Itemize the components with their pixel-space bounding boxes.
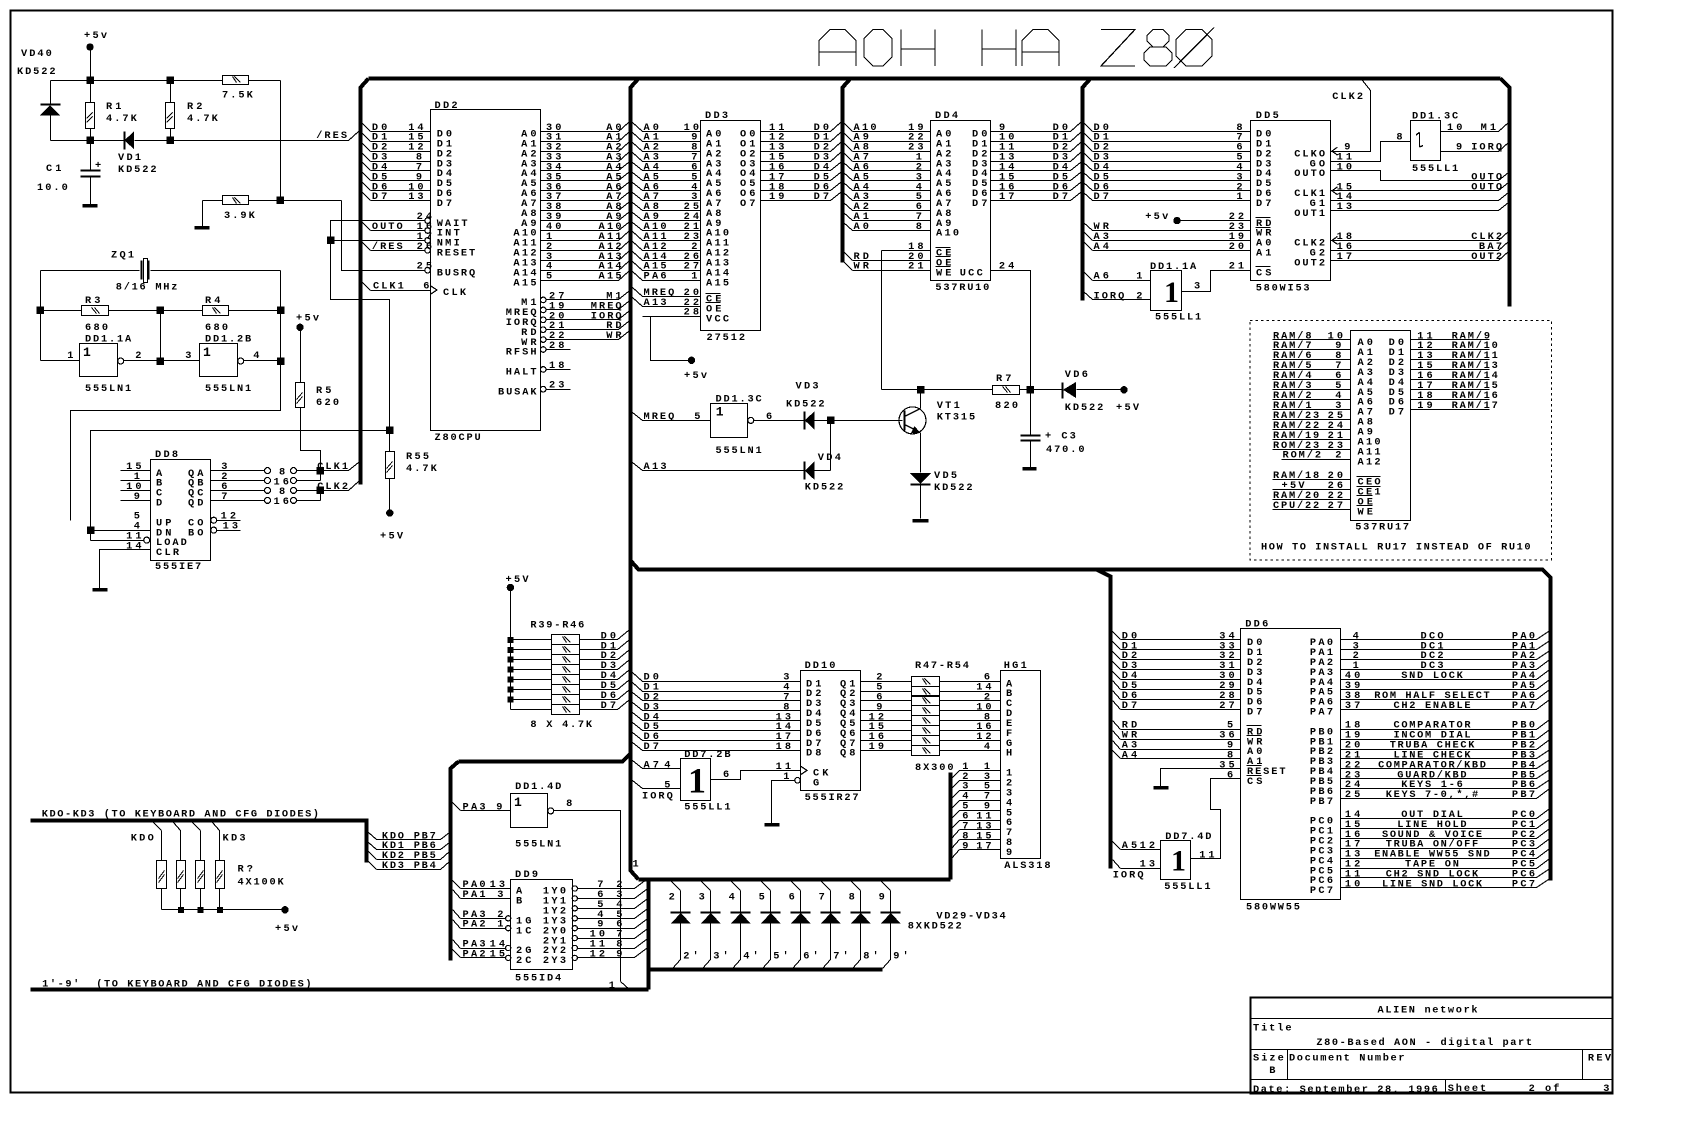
resistor R53: [912, 736, 940, 746]
wire DD7.2B out to CK: [711, 771, 801, 780]
svg-text:1: 1: [497, 919, 503, 931]
svg-text:KD3: KD3: [223, 832, 246, 844]
svg-text:470.0: 470.0: [1046, 444, 1085, 456]
jumper block 8/16: [265, 468, 271, 474]
ground: [1154, 786, 1169, 790]
svg-text:VD4: VD4: [818, 452, 841, 464]
DD2 pin D5 9: [363, 173, 371, 181]
wire data bus top horizontal: [369, 77, 1501, 81]
RU17 pin D3 15 RAM/13: [1411, 369, 1490, 371]
svg-text:KT315: KT315: [937, 412, 976, 424]
svg-text:PA2: PA2: [463, 919, 486, 931]
svg-text:KD522: KD522: [1065, 402, 1104, 414]
DD4 pin A9 22: [844, 133, 853, 142]
wire digit 1 net: [554, 811, 621, 982]
svg-text:3: 3: [1603, 1083, 1609, 1095]
DD4 pin A0 8: [844, 223, 853, 231]
transistor VT1: [899, 407, 926, 434]
svg-text:1: 1: [1164, 276, 1179, 309]
DD3 pin A4 6: [633, 163, 643, 171]
wire junction: [317, 467, 324, 474]
wire junction: [37, 307, 44, 314]
wire HG1 digit stub bus: [949, 773, 953, 880]
HG1 pin digit 8 / 15: [952, 840, 960, 849]
HG1 pin digit 1 / 1: [952, 771, 960, 779]
svg-text:7: 7: [819, 891, 825, 903]
svg-text:4.7K: 4.7K: [187, 113, 219, 125]
svg-text:6: 6: [766, 411, 772, 423]
svg-text:9: 9: [962, 840, 968, 852]
svg-text:27512: 27512: [707, 332, 746, 344]
crystal ZQ1: [41, 270, 140, 272]
svg-text:VD5: VD5: [934, 470, 957, 482]
svg-text:8: 8: [916, 221, 922, 233]
wire osc out loop: [280, 271, 282, 361]
capacitor C1: [90, 141, 92, 170]
DD4 pin A1 7: [844, 213, 853, 221]
wire 1-9 bottom bus: [31, 988, 649, 992]
svg-text:8X300: 8X300: [915, 762, 954, 774]
DD4 pin A4 4: [844, 183, 853, 191]
svg-text:KD3 PB4: KD3 PB4: [382, 860, 436, 872]
DD3 pin A1 9: [633, 133, 643, 142]
power node dot: [1174, 217, 1180, 223]
DD5 pin D7 1: [1084, 193, 1093, 201]
RU17 pin D0 11 RAM/9: [1411, 339, 1490, 341]
svg-text:+5v: +5v: [296, 313, 319, 325]
DD10 pin D1 3 / Q1 2: [633, 673, 643, 682]
wire mid horizontal bus: [631, 561, 1551, 881]
wire junction: [277, 307, 284, 314]
power node dot: [507, 584, 513, 590]
DD4 pin A10 19: [844, 123, 853, 132]
DD3 pin A11 23: [633, 232, 643, 241]
DD6 pin D3 31: [1113, 662, 1121, 670]
diode keyboard digit 8: [852, 882, 861, 891]
DD3 pin A5 5: [633, 173, 643, 181]
wire junction: [87, 137, 94, 144]
DD6 pin D0 34: [1113, 632, 1121, 640]
DD3 pin A10 21: [633, 223, 643, 231]
RU17 pin ROM/2 2: [1282, 459, 1351, 461]
DD4 pin A5 3: [844, 173, 853, 181]
resistor R51: [912, 716, 940, 726]
DD4 pin A8 23: [844, 143, 853, 152]
diode keyboard digit 2: [672, 882, 681, 891]
svg-text:680: 680: [85, 322, 108, 334]
wire junction: [87, 77, 94, 84]
DD3 pin A6 4: [633, 183, 643, 191]
svg-text:PA7: PA7: [1310, 707, 1333, 719]
svg-text:+5V: +5V: [506, 574, 530, 586]
svg-text:ROM/2: ROM/2: [1283, 450, 1322, 462]
DD2 pin D4 7: [363, 163, 371, 171]
svg-text:BUSRQ: BUSRQ: [437, 267, 476, 279]
DD5 pin D3 5: [1084, 153, 1093, 162]
wire junction: [918, 387, 925, 394]
svg-text:KD522: KD522: [934, 482, 973, 494]
jumper wires CLK2: [297, 490, 321, 492]
resistor R3x 7.5K: [223, 76, 249, 85]
wire junction: [178, 907, 183, 912]
svg-text:Document Number: Document Number: [1289, 1053, 1405, 1065]
svg-text:1: 1: [716, 405, 724, 420]
svg-text:+5V: +5V: [380, 531, 404, 543]
RU17 pin RAM/8 10: [1273, 339, 1351, 341]
svg-text:9: 9: [134, 491, 140, 503]
svg-text:+5v: +5v: [275, 923, 298, 935]
wire R3R4 mid: [160, 311, 162, 361]
HG1 pin digit 9 / 17: [952, 850, 960, 859]
wire DD9 output bus: [647, 880, 651, 990]
ground: [765, 823, 780, 827]
svg-text:1: 1: [203, 345, 211, 360]
wire junction: [828, 417, 835, 424]
DD3 VCC +5v: [651, 317, 701, 361]
DD5 WR A0 A1 pins: [1084, 223, 1093, 231]
DD10 pin D7 17 / Q7 16: [633, 733, 643, 741]
svg-text:4: 4: [984, 741, 990, 753]
svg-text:VCC: VCC: [706, 313, 729, 325]
RU17 pin RAM/2 4: [1273, 399, 1351, 401]
DD3 pin A7 3: [633, 193, 643, 201]
svg-text:KD522: KD522: [786, 399, 825, 411]
diode keyboard digit 5: [762, 882, 771, 891]
svg-text:Z80-Based AON - digital part: Z80-Based AON - digital part: [1316, 1037, 1532, 1049]
svg-text:8/16 MHz: 8/16 MHz: [116, 282, 178, 294]
DD6 pin D1 33: [1113, 642, 1121, 650]
DD4 CE wire down: [881, 251, 883, 390]
svg-text:KDO-KD3 (TO KEYBOARD AND CFG D: KDO-KD3 (TO KEYBOARD AND CFG DIODES): [42, 809, 319, 821]
svg-text:1: 1: [609, 980, 615, 992]
svg-text:+5V: +5V: [1116, 402, 1140, 414]
diode keyboard digit 7: [822, 882, 831, 891]
wire junction: [327, 237, 334, 244]
RU17 pin D5 17 RAM/15: [1411, 389, 1490, 391]
DD5 pin D4 4: [1084, 163, 1093, 171]
resistor R55: [389, 431, 391, 452]
power node dot: [387, 510, 393, 516]
svg-text:VT1: VT1: [937, 400, 960, 412]
svg-text:1: 1: [1136, 271, 1142, 283]
svg-text:1: 1: [633, 859, 639, 871]
svg-text:A15: A15: [706, 277, 729, 289]
wire junction: [508, 667, 513, 672]
wire keyboard +5v rail: [162, 909, 282, 911]
DD4 UCC wire: [991, 271, 1031, 390]
svg-text:CH2 ENABLE: CH2 ENABLE: [1394, 700, 1471, 712]
power node dot: [1121, 387, 1127, 393]
ground: [913, 519, 929, 523]
diode keyboard digit 6: [792, 882, 801, 891]
DD3 pin A15 27: [633, 262, 643, 271]
svg-text:CLR: CLR: [156, 547, 180, 559]
resistor R48: [912, 687, 940, 697]
DD5 pin D6 2: [1084, 183, 1093, 191]
DD10 pin D6 14 / Q6 15: [633, 723, 643, 731]
wire junction: [157, 358, 164, 365]
wire CLK2 top to CLK0: [1363, 81, 1371, 91]
svg-text:6: 6: [1227, 769, 1233, 781]
svg-text:8: 8: [1396, 132, 1402, 144]
wire central bus vertical: [631, 79, 639, 880]
svg-text:RESET: RESET: [437, 248, 476, 260]
svg-text:+: +: [95, 160, 101, 172]
svg-text:PC7: PC7: [1512, 878, 1535, 890]
svg-text:8 X 4.7K: 8 X 4.7K: [530, 719, 592, 731]
wire junction: [87, 527, 94, 534]
svg-text:1'-9' (TO KEYBOARD AND CFG DI: 1'-9' (TO KEYBOARD AND CFG DIODES): [42, 978, 312, 990]
resistor 3.9K: [203, 200, 223, 202]
DD6 control pins: [1113, 721, 1121, 730]
DD1.3C outputs M1 IORQ: [1441, 131, 1499, 133]
svg-text:REV: REV: [1588, 1053, 1612, 1065]
resistor R54: [912, 746, 940, 756]
jumper wires CLK1: [297, 470, 321, 472]
svg-text:5: 5: [759, 891, 765, 903]
DD10 pin D5 13 / Q5 12: [633, 713, 643, 721]
svg-text:620: 620: [316, 397, 339, 409]
resistor R46: [511, 709, 552, 711]
RU17 pin RAM/7 9: [1273, 349, 1351, 351]
DD3 pin A3 7: [633, 153, 643, 162]
svg-text:3: 3: [497, 889, 503, 901]
svg-text:UCC: UCC: [960, 267, 983, 279]
svg-text:PA1: PA1: [463, 889, 486, 901]
svg-text:PA3: PA3: [463, 801, 486, 813]
wire G0 to DD1.3C: [1331, 142, 1411, 162]
svg-text:KD522: KD522: [805, 482, 844, 494]
RU17 pin RAM/1 3: [1273, 409, 1351, 411]
svg-text:4: 4: [664, 760, 670, 772]
wire right top bus vertical: [1501, 79, 1510, 307]
DD4 pin A3 5: [844, 193, 853, 201]
net label /RES: [349, 132, 359, 141]
wire top rail: [51, 80, 223, 82]
svg-text:2: 2: [1136, 290, 1142, 302]
svg-text:3.9K: 3.9K: [224, 210, 256, 222]
wire osc resist rail: [41, 310, 82, 312]
wire keyboard column bus: [459, 754, 631, 762]
svg-text:6: 6: [423, 281, 429, 293]
wire osc left: [40, 271, 42, 361]
resistor R? keyboard 4: [213, 823, 220, 831]
RU17 pin RAM/5 7: [1273, 369, 1351, 371]
wire junction: [317, 487, 324, 494]
DD3 pin A9 24: [633, 213, 643, 221]
svg-text:680: 680: [205, 322, 228, 334]
wire junction: [508, 647, 513, 652]
DD9 pin PA3 14: [453, 940, 461, 949]
wire bus2 vertical: [843, 79, 851, 263]
diode VD5: [910, 473, 931, 484]
DD2 pin D7 13: [363, 193, 371, 201]
svg-text:6: 6: [789, 891, 795, 903]
svg-text:8: 8: [849, 891, 855, 903]
diode VD3: [754, 420, 805, 422]
svg-text:3: 3: [699, 891, 705, 903]
wire KD2 PB5: [369, 852, 377, 860]
wire diode lower bus: [649, 968, 883, 972]
DD5 CLK2 G2 OUT2 wires: [1331, 240, 1499, 242]
svg-text:PA7: PA7: [1512, 700, 1535, 712]
svg-text:HOW TO INSTALL RU17 INSTEAD OF: HOW TO INSTALL RU17 INSTEAD OF RU10: [1261, 542, 1531, 554]
wire KD1 PB6: [369, 843, 377, 850]
DD3 pin A0 10: [633, 123, 643, 132]
svg-text:VD6: VD6: [1065, 369, 1088, 381]
svg-text:8: 8: [566, 798, 572, 810]
wire lower rail /RES: [51, 140, 124, 142]
DD10 pin D8 18 / Q8 19: [633, 743, 643, 751]
title block: [1251, 998, 1613, 1094]
svg-text:580WW55: 580WW55: [1246, 902, 1300, 914]
svg-text:537RU10: 537RU10: [935, 282, 989, 294]
diode keyboard digit 3: [702, 882, 711, 891]
svg-text:555IR27: 555IR27: [805, 792, 859, 804]
ground: [83, 204, 98, 208]
DD5 pin D5 3: [1084, 173, 1093, 181]
ram 537RU17: [1351, 331, 1411, 521]
svg-text:G: G: [813, 778, 819, 790]
diode VD1: [124, 132, 126, 150]
svg-text:R47-R54: R47-R54: [915, 660, 969, 672]
svg-text:SND LOCK: SND LOCK: [1401, 670, 1463, 682]
resistor R7: [993, 386, 1020, 395]
svg-text:1: 1: [1171, 845, 1186, 878]
ground 3.9K: [202, 201, 204, 227]
HG1 pin digit 2 / 3: [952, 781, 960, 789]
svg-text:4.7K: 4.7K: [106, 113, 138, 125]
svg-text:ZQ1: ZQ1: [111, 250, 134, 262]
DD9 pin PA2 15: [453, 950, 461, 958]
wire bus3 vertical: [1083, 79, 1091, 301]
resistor R49: [912, 696, 940, 706]
svg-text:5: 5: [546, 271, 552, 283]
wire junction: [157, 307, 164, 314]
DD6 pin D6 28: [1113, 691, 1121, 700]
svg-text:+5v: +5v: [684, 370, 707, 382]
svg-text:PC7: PC7: [1310, 885, 1333, 897]
svg-text:8XKD522: 8XKD522: [908, 921, 962, 933]
wire collector rail: [882, 389, 993, 391]
DD4 pin A2 6: [844, 203, 853, 211]
DD6 pin D7 27: [1113, 701, 1121, 710]
svg-text:+5v: +5v: [1145, 211, 1168, 223]
DD2 pin D3 8: [363, 154, 371, 162]
svg-text:7.5K: 7.5K: [222, 90, 254, 102]
diode VD40: [50, 81, 52, 105]
wire KD3 PB4: [369, 862, 377, 870]
svg-text:KD522: KD522: [118, 164, 157, 176]
svg-text:Date: September 28, 1996: Date: September 28, 1996: [1253, 1084, 1438, 1096]
resistor R47: [912, 677, 940, 687]
svg-text:+5v: +5v: [84, 30, 107, 42]
svg-text:6: 6: [723, 769, 729, 781]
diode keyboard digit 4: [732, 882, 741, 891]
DD2 pin D1 15: [363, 134, 371, 142]
svg-text:DD2: DD2: [435, 100, 458, 112]
ground: [1023, 467, 1037, 471]
RU17 pin RAM/6 8: [1273, 359, 1351, 361]
ground: [195, 226, 210, 230]
svg-text:9: 9: [879, 891, 885, 903]
svg-text:KD522: KD522: [17, 66, 56, 78]
wire junction: [508, 697, 513, 702]
svg-text:PA2: PA2: [463, 948, 486, 960]
DD3 pin A12 2: [633, 242, 643, 251]
svg-text:D: D: [156, 498, 162, 510]
svg-text:VD1: VD1: [118, 152, 141, 164]
svg-text:3: 3: [1194, 281, 1200, 293]
DD5 pin D2 6: [1084, 143, 1093, 152]
DD4 pin A7 1: [844, 153, 853, 162]
DD5 pin D1 7: [1084, 133, 1093, 142]
wire junction: [508, 687, 513, 692]
svg-text:820: 820: [995, 400, 1018, 412]
svg-text:9: 9: [1456, 142, 1462, 154]
DD3 pin A14 26: [633, 252, 643, 261]
wire junction: [167, 137, 174, 144]
diode VD6: [1062, 383, 1064, 399]
RU17 control pins: [1273, 479, 1351, 481]
HG1 pin digit 7 / 13: [952, 830, 960, 839]
wire KDO PB7: [369, 833, 377, 840]
RU17 pin RAM/4 6: [1273, 379, 1351, 381]
svg-text:2: 2: [669, 891, 675, 903]
svg-text:LINE SND LOCK: LINE SND LOCK: [1382, 878, 1483, 890]
DD4 CE OE WE pins: [882, 250, 931, 252]
svg-text:VD3: VD3: [796, 381, 819, 393]
RU17 pin RAM/23 25: [1273, 419, 1351, 421]
svg-text:Sheet: Sheet: [1448, 1083, 1487, 1095]
wire 3.9K to BUSRQ: [342, 201, 426, 271]
wire KD0-KD3 bus: [31, 821, 367, 863]
DD10 pin D2 4 / Q2 5: [633, 683, 643, 692]
DD9 pin PA0 13: [453, 881, 461, 889]
wire junction: [167, 77, 174, 84]
svg-text:R55: R55: [406, 451, 429, 463]
svg-text:9: 9: [616, 948, 622, 960]
capacitor C3: [1030, 390, 1032, 435]
svg-text:7: 7: [221, 491, 227, 503]
svg-text:1: 1: [691, 271, 697, 283]
RU17 pin RAM/22 24: [1273, 429, 1351, 431]
svg-text:1: 1: [83, 345, 91, 360]
DD2 pin D0 14: [363, 124, 371, 132]
power node dot: [688, 357, 694, 363]
HG1 pin digit 5 / 9: [952, 811, 960, 819]
diode keyboard digit 9: [882, 882, 891, 891]
svg-text:2: 2: [1335, 450, 1341, 462]
svg-text:CLK: CLK: [443, 287, 467, 299]
svg-text:PB7: PB7: [1310, 796, 1333, 808]
RU17 pin D2 13 RAM/11: [1411, 359, 1490, 361]
svg-text:A13: A13: [644, 297, 667, 309]
RU17 pin RAM/3 5: [1273, 389, 1351, 391]
DD3 pin PA6 1: [633, 272, 643, 281]
wire OUT0 jog: [1331, 171, 1499, 181]
svg-text:A13: A13: [644, 461, 667, 473]
svg-text:BUSAK: BUSAK: [498, 386, 537, 398]
wire R55 net to DD8: [91, 431, 390, 541]
svg-text:PA6: PA6: [644, 271, 667, 283]
DD8 CLR to ground: [100, 550, 151, 589]
wire junction: [277, 358, 284, 365]
DD3 CE OE VCC pins: [643, 296, 701, 298]
DD9 pin PA2 1: [453, 920, 461, 929]
resistor R2: [170, 81, 172, 103]
resistor R? keyboard 3: [193, 823, 201, 831]
